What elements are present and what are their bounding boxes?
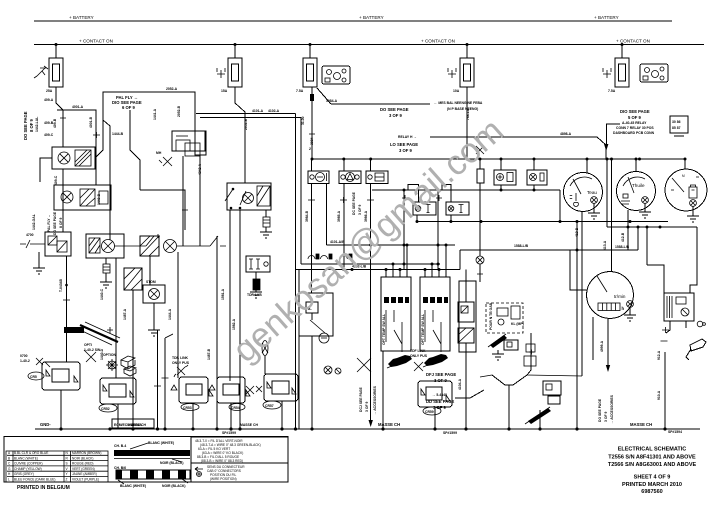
svg-text:1487-A: 1487-A — [123, 308, 127, 320]
svg-text:+ BATTERY: + BATTERY — [594, 15, 619, 20]
wire below F3 — [311, 87, 313, 159]
fuse F1 — [49, 58, 63, 87]
svg-text:+ BATTERY: + BATTERY — [69, 15, 94, 20]
svg-text:PAL FLY ↔: PAL FLY ↔ — [47, 214, 51, 232]
S1 bottom drop — [382, 351, 384, 429]
svg-text:85 87: 85 87 — [672, 126, 681, 130]
svg-text:4104-A: 4104-A — [458, 378, 462, 390]
color table — [6, 451, 108, 482]
svg-text:DO SEE PAGE: DO SEE PAGE — [598, 398, 602, 422]
box x455 col — [465, 270, 467, 303]
svg-text:CR59: CR59 — [425, 410, 434, 414]
svg-text:MASSE CH: MASSE CH — [378, 422, 400, 427]
svg-text:T2566 S/N A8G63001 AND ABOVE: T2566 S/N A8G63001 AND ABOVE — [608, 462, 697, 468]
I-I icon left of F4 — [448, 68, 456, 78]
hop-node markers on verticals — [308, 254, 352, 259]
x697 drop to ignition — [690, 227, 697, 293]
ground — [250, 292, 262, 298]
cluster B outer box — [45, 232, 71, 256]
ground — [148, 330, 160, 336]
svg-text:3 OF 9: 3 OF 9 — [604, 412, 608, 422]
svg-text:h: h — [622, 306, 625, 311]
drops from dual boxes — [417, 215, 451, 222]
lamp in cluster A2 — [61, 191, 73, 203]
I-I icon left of F2 — [217, 68, 225, 78]
G4 left wire — [570, 250, 587, 290]
wire to fuse F5 — [621, 45, 623, 59]
svg-text:6987560: 6987560 — [641, 489, 662, 495]
svg-text:GRIS (GREY): GRIS (GREY) — [14, 472, 34, 476]
G3 lamp — [690, 200, 697, 207]
G3 ground — [687, 207, 699, 223]
hour meter — [598, 303, 620, 311]
CR5m diodes left — [246, 386, 262, 394]
svg-text:CR54: CR54 — [231, 406, 240, 410]
svg-text:25A: 25A — [46, 89, 53, 93]
tick on x96 — [93, 132, 100, 138]
connector box right of F5 — [640, 64, 668, 82]
svg-text:+ BATTERY: + BATTERY — [359, 15, 384, 20]
svg-text:MASSE CH: MASSE CH — [240, 423, 258, 427]
svg-text:1441-A: 1441-A — [153, 108, 157, 120]
svg-text:15A: 15A — [221, 89, 228, 93]
color table text — [8, 451, 101, 482]
relay CR1 — [42, 362, 80, 390]
box HAND — [543, 381, 561, 395]
contact-on bus — [34, 44, 704, 46]
boxed ECM label — [112, 419, 154, 428]
small circles below — [697, 321, 705, 327]
relay CR5m — [264, 374, 298, 401]
mid horizontal y269.5 — [296, 269, 461, 271]
vertical wire x110 upper — [109, 168, 111, 240]
box row B2 — [339, 171, 361, 184]
car blob under S2 — [424, 354, 448, 366]
lamp on x480 — [476, 256, 484, 264]
svg-text:ONLY PUS: ONLY PUS — [410, 354, 428, 358]
relay-H wire — [430, 137, 606, 159]
relay CR4 — [217, 377, 245, 403]
B- cluster box — [299, 293, 333, 336]
svg-text:CH. B-4: CH. B-4 — [114, 444, 126, 448]
svg-text:B.BL CLR & ORO BLUE: B.BL CLR & ORO BLUE — [14, 451, 48, 455]
svg-text:4342-A: 4342-A — [198, 163, 202, 175]
G2 ground — [639, 204, 651, 219]
svg-text:ECM/ECU GND-A: ECM/ECU GND-A — [114, 423, 142, 427]
svg-text:OPT TEMP SW ALL: OPT TEMP SW ALL — [382, 314, 386, 345]
small box right in A2 — [99, 191, 108, 204]
svg-text:1444-B: 1444-B — [112, 132, 124, 136]
wire x531 — [527, 333, 531, 375]
svg-text:1-40-2 SW: 1-40-2 SW — [84, 348, 101, 352]
verticals x157.5 x165 — [158, 330, 174, 429]
H-box — [246, 256, 270, 272]
cluster A2 outer box — [54, 185, 111, 210]
svg-text:L: L — [8, 478, 10, 482]
svg-text:DASHBOARD PCB CONN: DASHBOARD PCB CONN — [613, 131, 655, 135]
svg-text:DCJ SEE PAGE: DCJ SEE PAGE — [359, 386, 363, 412]
dots y221.5 — [416, 220, 419, 223]
left end y250 — [459, 250, 461, 270]
cluster B inner squares — [48, 236, 67, 252]
svg-text:413-A: 413-A — [603, 240, 607, 250]
svg-text:A-40-45 RELAY: A-40-45 RELAY — [622, 121, 647, 125]
legend outer box — [4, 437, 288, 483]
gauge G4 tachometer — [587, 272, 634, 319]
svg-text:PRINTED IN BELGIUM: PRINTED IN BELGIUM — [17, 485, 70, 491]
pen blob 2 — [528, 408, 551, 424]
fuse F5 — [615, 58, 629, 87]
G4 riser — [611, 159, 613, 272]
svg-text:V: V — [66, 467, 69, 471]
svg-text:G: G — [8, 467, 11, 471]
wire 4001-A branch right — [57, 110, 96, 185]
wire below x133 — [132, 290, 134, 429]
small fuse x480 — [476, 146, 484, 154]
svg-text:T-0434B: T-0434B — [59, 278, 63, 292]
wires below K1 — [183, 155, 200, 246]
wire corner right — [140, 190, 185, 230]
svg-text:→ ACCESSORIES: → ACCESSORIES — [610, 394, 614, 424]
G4 lamp — [627, 301, 634, 308]
cluster A outer box — [52, 147, 95, 169]
svg-text:7.5A: 7.5A — [296, 89, 304, 93]
bend y250 to y227 — [637, 227, 639, 250]
lamp cluster C box — [86, 234, 124, 258]
svg-text:Teau: Teau — [587, 190, 597, 195]
svg-text:3 OF 9: 3 OF 9 — [358, 205, 362, 215]
svg-text:TDF. LINK: TDF. LINK — [172, 356, 189, 360]
verticals below y221.5 — [404, 190, 438, 270]
svg-text:4001-A: 4001-A — [72, 105, 84, 109]
chain below H-box — [255, 272, 257, 279]
svg-text:SP#1599: SP#1599 — [443, 431, 457, 435]
svg-text:31.00: 31.00 — [301, 116, 305, 125]
svg-text:30 86: 30 86 — [672, 120, 681, 124]
svg-text:1440-B: 1440-B — [97, 193, 101, 205]
svg-text:Thuile: Thuile — [632, 183, 645, 188]
G1 thermometer icon — [570, 193, 579, 206]
svg-text:3984-A: 3984-A — [326, 99, 338, 103]
svg-text:← MES BAL NEENG NE FEBA: ← MES BAL NEENG NE FEBA — [434, 101, 483, 105]
svg-text:+ CONTACT ON: + CONTACT ON — [616, 39, 650, 44]
node tick — [107, 327, 113, 333]
ground under KL — [492, 350, 504, 360]
switch icon left of F1 — [34, 66, 48, 78]
svg-text:TDF LINK: TDF LINK — [410, 349, 426, 353]
svg-text:8 OF 9: 8 OF 9 — [59, 218, 63, 228]
box with X x130 — [124, 268, 142, 290]
svg-text:ELECTRICAL SCHEMATIC: ELECTRICAL SCHEMATIC — [618, 447, 687, 453]
wire from cluster A up right — [95, 92, 195, 168]
svg-text:KL (MP): KL (MP) — [511, 322, 524, 326]
svg-text:STOM: STOM — [146, 280, 156, 284]
svg-text:+ CONTACT ON: + CONTACT ON — [421, 39, 455, 44]
wire below cluster B left — [38, 252, 40, 268]
switch box S2 — [420, 277, 450, 351]
node tick — [60, 115, 66, 121]
svg-text:6 OF 9: 6 OF 9 — [122, 105, 135, 110]
node ticks under box row — [308, 197, 374, 203]
G1 riser — [586, 159, 588, 173]
S1 pin squares — [384, 297, 409, 303]
svg-text:GND-: GND- — [40, 422, 51, 427]
svg-text:C: C — [8, 462, 11, 466]
svg-text:1442-GAL: 1442-GAL — [32, 214, 36, 230]
line under relay box — [674, 135, 684, 137]
svg-text:CHAMP (YELLOW): CHAMP (YELLOW) — [14, 467, 42, 471]
svg-text:LO SEE PAGE: LO SEE PAGE — [390, 142, 418, 147]
pen blob — [490, 335, 507, 348]
fuse F3 — [303, 58, 317, 87]
wire — [539, 410, 541, 429]
jumper loops over y190 — [408, 185, 451, 203]
G2 lamp — [642, 197, 649, 204]
lamp in STOM box — [149, 289, 160, 300]
cluster D switch dots and arms — [225, 188, 246, 209]
CR1 crossed arrows — [84, 350, 96, 362]
svg-text:0700: 0700 — [20, 354, 28, 358]
gauge G1 Teau — [564, 173, 603, 212]
see-page wire y104 — [331, 103, 430, 105]
horizontal y190 — [372, 189, 560, 191]
vertical x665 — [664, 352, 666, 429]
small box with square — [504, 340, 518, 350]
G1 drop — [581, 212, 583, 222]
relay CR2 — [100, 378, 136, 404]
mid bus y159 — [312, 158, 686, 160]
svg-text:CONN 7 RELAY 30 POS: CONN 7 RELAY 30 POS — [616, 126, 654, 130]
wire F1 down — [56, 87, 63, 147]
G3 pump icon — [689, 185, 697, 198]
svg-text:JAUNE (AMBER): JAUNE (AMBER) — [72, 472, 97, 476]
svg-text:3 OF 9: 3 OF 9 — [399, 148, 412, 153]
key icon top right — [686, 339, 706, 360]
S1 contacts — [386, 310, 402, 352]
G2 drop — [627, 210, 629, 227]
switch box S1 — [381, 277, 411, 351]
resistor chain below cluster D — [265, 210, 267, 217]
svg-text:DO SEE PAGE: DO SEE PAGE — [53, 211, 57, 235]
svg-text:VIOLET (PURPLE): VIOLET (PURPLE) — [72, 478, 99, 482]
CR1 wire down — [60, 390, 62, 429]
svg-text:DO SEE PAGE: DO SEE PAGE — [380, 107, 409, 112]
dual box D2 — [446, 202, 469, 215]
svg-text:ROUGE (RED): ROUGE (RED) — [72, 462, 93, 466]
wire to fuse F3 — [309, 45, 311, 59]
hatched box in cluster A — [75, 150, 91, 166]
cluster D lamp — [243, 193, 254, 204]
svg-text:BLANC (WHITE): BLANC (WHITE) — [14, 456, 38, 460]
corner y190 right down — [559, 190, 561, 222]
svg-text:BLANC (WHITE): BLANC (WHITE) — [148, 441, 174, 445]
ignition switch box — [664, 293, 694, 321]
ground dots — [59, 427, 62, 430]
svg-text:2052-A: 2052-A — [166, 87, 178, 91]
svg-text:CUIVRE (COPPER): CUIVRE (COPPER) — [14, 462, 43, 466]
flasher switch arm — [177, 236, 226, 246]
svg-text:BLANC (WHITE): BLANC (WHITE) — [120, 484, 146, 488]
relay cluster K1 outer — [172, 131, 206, 155]
svg-text:1487-B: 1487-B — [207, 348, 211, 360]
oval lamp x265 — [262, 341, 268, 356]
svg-text:+ CONTACT ON: + CONTACT ON — [79, 39, 113, 44]
S2 contacts — [425, 310, 441, 352]
svg-text:1442-LAL: 1442-LAL — [35, 117, 39, 132]
gauge G3 — [665, 169, 707, 211]
arrow symbol right panel — [195, 467, 203, 477]
switch arm cluster C — [114, 234, 160, 246]
svg-text:NOIR (BLACK): NOIR (BLACK) — [162, 484, 186, 488]
svg-text:4898-A: 4898-A — [560, 132, 572, 136]
mid horizontal y264 — [301, 263, 440, 265]
svg-text:412-B: 412-B — [621, 232, 625, 242]
svg-text:1444-A: 1444-A — [168, 308, 172, 320]
double feeder wires — [196, 114, 301, 118]
risers and drops R1 R2 — [501, 159, 534, 190]
relay box 30-86 — [670, 116, 688, 133]
horizontal y221.5 — [419, 221, 668, 223]
wire below cluster A — [62, 169, 64, 232]
wire from note down — [130, 110, 140, 190]
svg-text:4999-A: 4999-A — [600, 340, 604, 352]
wire flasher down — [149, 256, 151, 285]
svg-text:2: 2 — [309, 147, 311, 151]
wire to fuse F2 — [234, 45, 236, 59]
wire below F4 — [466, 87, 468, 159]
svg-text:409-C: 409-C — [44, 133, 54, 137]
flasher box — [140, 236, 159, 256]
svg-text:4001-B: 4001-B — [89, 116, 93, 128]
svg-text:DC SEE PAGE: DC SEE PAGE — [352, 191, 356, 215]
svg-text:M: M — [682, 174, 685, 178]
big X switch mark — [357, 358, 371, 372]
G2 oil icon — [621, 194, 630, 204]
svg-text:→ ACCESSORIES: → ACCESSORIES — [373, 385, 377, 415]
K1 inner boxes — [176, 136, 200, 156]
svg-text:3984-B: 3984-B — [305, 210, 309, 222]
svg-text:MASSE CH: MASSE CH — [630, 422, 652, 427]
dots mid bus — [311, 158, 314, 161]
svg-text:tr/min: tr/min — [614, 294, 626, 299]
verticals below cluster D — [229, 210, 231, 381]
verticals x295/x301 — [295, 114, 297, 430]
boxes R1 R2 — [494, 170, 516, 185]
svg-text:CR52: CR52 — [101, 407, 110, 411]
resistor chain below cluster C — [105, 258, 107, 282]
vertical x66.5 cluster B to CR1 — [66, 256, 68, 362]
verticals through box row — [312, 159, 371, 420]
cluster D hatched box — [257, 186, 270, 206]
G3 riser — [684, 159, 686, 169]
relay CR7 — [418, 381, 452, 407]
svg-text:NOIR (BLACK): NOIR (BLACK) — [72, 456, 93, 460]
svg-text:A: A — [8, 451, 11, 455]
svg-text:3985-A: 3985-A — [337, 210, 341, 222]
svg-text:Z: Z — [66, 478, 68, 482]
svg-text:409-C: 409-C — [54, 175, 58, 185]
I-I icon left of F5 — [603, 68, 611, 78]
car blob under S1 — [388, 355, 412, 367]
svg-text:SP#1594: SP#1594 — [668, 430, 682, 434]
svg-text:VERT (GREEN): VERT (GREEN) — [72, 467, 95, 471]
svg-text:1588-L/B: 1588-L/B — [615, 245, 630, 249]
node tick — [182, 207, 188, 213]
svg-text:RELAY H →: RELAY H → — [398, 135, 417, 139]
box row B3 — [366, 171, 388, 184]
wire STOM down — [153, 303, 155, 330]
svg-text:(N P BASE NEENG): (N P BASE NEENG) — [447, 107, 478, 111]
STOM box — [143, 285, 165, 303]
svg-text:4700: 4700 — [26, 233, 34, 237]
svg-text:3 OF 9: 3 OF 9 — [365, 402, 369, 412]
hatch stripe — [80, 325, 118, 342]
G1 lamp — [591, 197, 598, 204]
svg-text:5 OF 9: 5 OF 9 — [628, 115, 641, 120]
funnel merge — [492, 375, 527, 429]
mid horizontal y245 — [327, 244, 456, 246]
svg-text:DIO SEE PAGE: DIO SEE PAGE — [620, 109, 650, 114]
tick — [477, 271, 483, 277]
wire 5-4343 — [455, 390, 484, 398]
wire cluster A left drop — [40, 158, 52, 182]
arrow on x608 — [606, 365, 610, 372]
svg-text:DFJ SEE PAGE: DFJ SEE PAGE — [426, 372, 456, 377]
svg-text:T2556 S/N A8F41301 AND ABOVE: T2556 S/N A8F41301 AND ABOVE — [608, 455, 696, 461]
fuse F2 — [228, 58, 242, 87]
vertical x327 from B1 — [326, 184, 328, 246]
svg-text:2052-B: 2052-B — [244, 118, 248, 130]
svg-text:CR53: CR53 — [183, 406, 192, 410]
fuse F4 — [460, 58, 474, 87]
connector box right of F3 — [322, 66, 350, 84]
sun icon — [106, 359, 118, 371]
junction dots contact bus — [55, 43, 58, 46]
svg-text:2052-B: 2052-B — [177, 105, 181, 117]
svg-text:POUR N TB GAB: POUR N TB GAB — [489, 302, 493, 330]
KL dashed box — [486, 303, 523, 333]
svg-text:CH. B/6: CH. B/6 — [114, 466, 126, 470]
svg-text:B: B — [8, 456, 10, 460]
verticals below gauges — [577, 159, 628, 429]
arrowhead x371 — [369, 420, 373, 427]
svg-text:CR57: CR57 — [265, 404, 274, 408]
legend right panel — [191, 437, 288, 482]
wire below F2 — [235, 87, 245, 183]
lamp minus — [319, 333, 329, 343]
svg-text:3984: 3984 — [310, 137, 314, 145]
lamp in cluster A — [58, 152, 70, 164]
lamp cluster C — [102, 240, 115, 253]
wires below ignition — [666, 321, 686, 333]
G4 bottom drops — [593, 317, 608, 366]
bus y250 — [460, 249, 638, 251]
svg-text:1582-A: 1582-A — [232, 318, 236, 330]
svg-text:1588-L/B: 1588-L/B — [514, 244, 529, 248]
svg-text:OPTION: OPTION — [103, 353, 117, 357]
wire to fuse F1 — [55, 45, 57, 59]
box row B1 — [308, 171, 329, 184]
svg-text:1581-A: 1581-A — [221, 288, 225, 300]
svg-text:788-LA: 788-LA — [466, 108, 470, 120]
svg-text:CR5: CR5 — [30, 375, 37, 379]
K1 diode X — [159, 157, 172, 166]
svg-text:409-A: 409-A — [44, 98, 54, 102]
svg-text:4102-A: 4102-A — [268, 109, 280, 113]
flasher lamp — [164, 240, 177, 253]
vertical wire x178 — [177, 252, 179, 378]
svg-text:1440-C: 1440-C — [100, 288, 104, 300]
